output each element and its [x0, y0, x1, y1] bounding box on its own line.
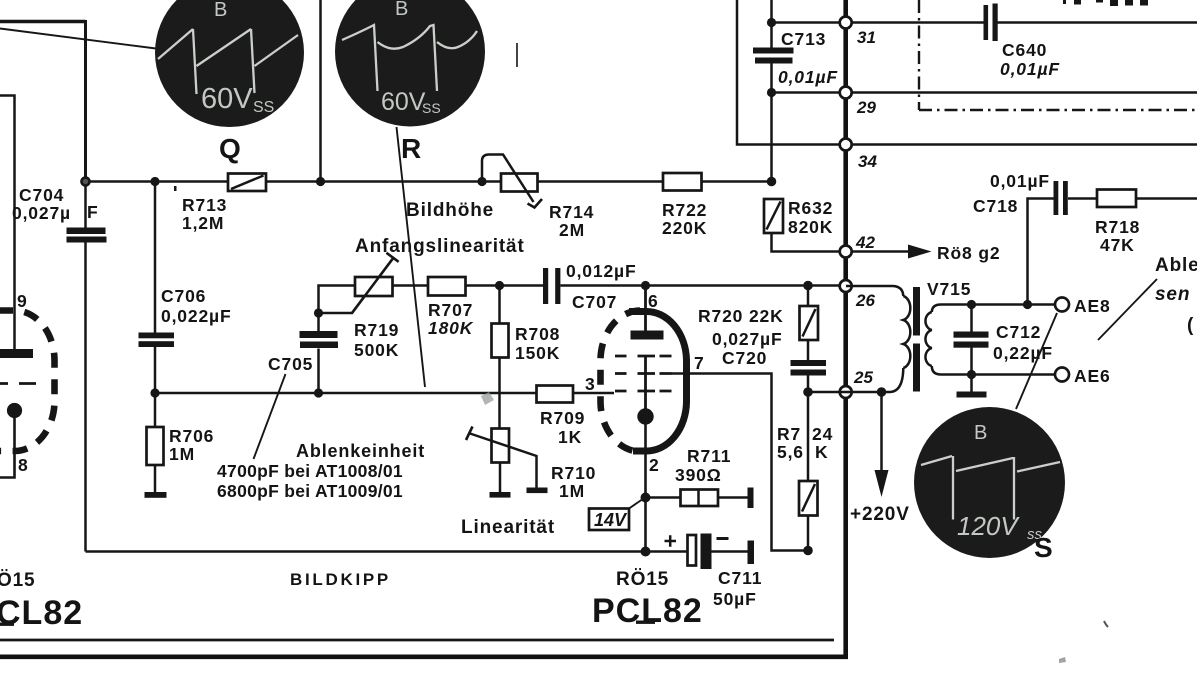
- capacitor C706: [139, 182, 232, 394]
- tube pentode RO15 PCL82: [585, 286, 705, 552]
- svg-text:1M: 1M: [169, 444, 195, 464]
- terminal AE8: [1055, 298, 1069, 312]
- triode tube left partial: [0, 291, 55, 478]
- svg-text:5,6: 5,6: [777, 442, 804, 462]
- dash-dot screen boundary: [919, 0, 1197, 110]
- svg-text:R632: R632: [788, 198, 833, 218]
- terminal 31: [840, 17, 852, 29]
- svg-text:C705: C705: [268, 354, 313, 374]
- svg-text:RÖ15: RÖ15: [616, 569, 669, 590]
- leader from circle S to AE8: [1016, 313, 1057, 409]
- grid g2 dashes: [615, 372, 672, 375]
- envelope dashed left half: [601, 311, 641, 452]
- svg-text:25: 25: [853, 368, 873, 387]
- resistor R709: [537, 386, 586, 448]
- terminal 29: [840, 87, 852, 99]
- capacitor C707: [543, 261, 637, 312]
- svg-text:B: B: [214, 0, 227, 21]
- svg-text:2M: 2M: [559, 220, 585, 240]
- svg-text:C706: C706: [161, 286, 206, 306]
- svg-text:Bildhöhe: Bildhöhe: [406, 200, 494, 221]
- note Ablenkeinheit: [217, 441, 425, 501]
- resistor R632: [764, 198, 840, 252]
- terminal AE6: [1055, 368, 1069, 382]
- svg-text:1K: 1K: [558, 427, 582, 447]
- bus main thick vertical + bottom rail: [0, 0, 846, 657]
- svg-text:SS: SS: [422, 100, 441, 116]
- svg-text:R719: R719: [354, 320, 399, 340]
- cathode dot: [7, 403, 22, 418]
- terminal 34: [840, 139, 852, 151]
- capacitor C704: [12, 182, 107, 552]
- wire bottom of box y551: [86, 550, 689, 553]
- svg-text:(: (: [1187, 315, 1194, 336]
- scope circle R: [335, 0, 485, 164]
- svg-text:Rö8 g2: Rö8 g2: [937, 243, 1000, 263]
- svg-text:Anfangslinearität: Anfangslinearität: [355, 236, 525, 257]
- svg-text:34: 34: [858, 152, 877, 171]
- grid g1 dashes: [615, 390, 672, 393]
- svg-text:R711: R711: [687, 446, 731, 466]
- svg-text:R708: R708: [515, 324, 560, 344]
- svg-text:8: 8: [18, 455, 29, 475]
- svg-text:R709: R709: [540, 408, 585, 428]
- arrow to Roe8 g2: [852, 243, 1000, 263]
- svg-text:26: 26: [855, 291, 875, 310]
- svg-text:31: 31: [857, 28, 876, 47]
- resistor R722: [662, 173, 707, 238]
- transformer V715 primary: [846, 279, 971, 392]
- svg-text:B: B: [974, 422, 987, 444]
- svg-text:PCL82: PCL82: [592, 592, 703, 630]
- svg-text:Linearität: Linearität: [461, 517, 555, 538]
- svg-text:C720: C720: [722, 348, 767, 368]
- svg-text:42: 42: [855, 233, 875, 252]
- grid g3 dashes: [615, 355, 672, 358]
- wire top-left feed pair: [0, 20, 86, 23]
- svg-text:B: B: [395, 0, 408, 20]
- wire leader to scope circle Q: [0, 29, 156, 49]
- grey smudge artifact: [481, 392, 494, 405]
- wire row y285 from R719 to terminal 26: [393, 284, 841, 287]
- cathode dot: [637, 408, 653, 424]
- svg-text:C712: C712: [996, 322, 1041, 342]
- svg-text:Q: Q: [219, 133, 241, 164]
- svg-text:120V: 120V: [957, 511, 1020, 541]
- leader from circle R down to wire: [397, 127, 426, 387]
- resistor R724: [777, 424, 833, 551]
- svg-text:sen: sen: [1155, 284, 1190, 305]
- svg-text:29: 29: [856, 98, 876, 117]
- capacitor C720: [712, 329, 826, 481]
- anode bar: [0, 349, 33, 358]
- svg-text:0,022µF: 0,022µF: [161, 306, 232, 326]
- svg-text:390Ω: 390Ω: [675, 465, 722, 485]
- svg-text:C711: C711: [718, 568, 762, 588]
- transformer V715 secondary: [925, 305, 950, 375]
- wire feedback row y393: [155, 392, 614, 395]
- svg-text:S: S: [1034, 532, 1053, 563]
- capacitor C713: [753, 0, 838, 182]
- svg-text:0,027µF: 0,027µF: [712, 329, 783, 349]
- resistor R711: [646, 446, 754, 508]
- svg-text:R707: R707: [428, 300, 473, 320]
- wire pin 9 feed from left edge: [0, 96, 15, 351]
- wire stub artifact right of circle R: [516, 43, 518, 67]
- scope circle Q: [155, 0, 304, 164]
- svg-text:150K: 150K: [515, 343, 560, 363]
- wire terminal 25 row: [808, 391, 886, 394]
- svg-text:Ö15: Ö15: [0, 570, 35, 591]
- envelope dashed: [0, 310, 55, 451]
- svg-text:C713: C713: [781, 29, 826, 49]
- svg-text:1M: 1M: [559, 481, 585, 501]
- capacitor C640: [984, 4, 1197, 80]
- svg-text:C707: C707: [572, 292, 617, 312]
- resistor R720: [698, 286, 818, 361]
- svg-text:R713: R713: [182, 195, 227, 215]
- terminal 42: [840, 246, 852, 258]
- wire terminal 31 row: [772, 21, 985, 24]
- svg-text:0,01µF: 0,01µF: [1000, 59, 1060, 79]
- svg-text:1,2M: 1,2M: [182, 213, 224, 233]
- svg-text:V715: V715: [927, 279, 971, 299]
- partial text right edge Ablenk...: [1155, 255, 1197, 336]
- terminal 25: [840, 386, 852, 398]
- svg-text:R: R: [401, 133, 421, 164]
- svg-text:K: K: [815, 442, 829, 462]
- wire AE6 row: [950, 373, 1055, 376]
- partial text fragments top right edge: [1063, 0, 1148, 6]
- resistor R718: [1095, 190, 1197, 256]
- svg-text:0,01µF: 0,01µF: [990, 171, 1050, 191]
- potentiometer R710 Linearitaet: [461, 427, 596, 539]
- wire terminal 34 row: [737, 0, 1197, 145]
- resistor R708: [492, 286, 561, 429]
- svg-text:+220V: +220V: [850, 504, 910, 525]
- svg-text:CL82: CL82: [0, 594, 83, 632]
- svg-text:R706: R706: [169, 426, 214, 446]
- svg-text:9: 9: [17, 291, 28, 311]
- wire terminal 29 row: [772, 91, 1197, 94]
- svg-text:R718: R718: [1095, 217, 1140, 237]
- svg-text:2: 2: [649, 455, 660, 475]
- terminal 26: [840, 280, 852, 292]
- svg-text:0,01µF: 0,01µF: [778, 67, 838, 87]
- box 14V: [589, 498, 645, 531]
- scope circle S: [914, 407, 1065, 563]
- svg-text:R710: R710: [551, 463, 596, 483]
- bottom rail A: [0, 639, 834, 642]
- svg-text:4700pF bei AT1008/01: 4700pF bei AT1008/01: [217, 461, 403, 481]
- svg-text:Ablenkeinheit: Ablenkeinheit: [296, 441, 425, 461]
- svg-text:AE8: AE8: [1074, 296, 1111, 316]
- envelope solid right half: [629, 311, 687, 451]
- cathode rod: [644, 356, 647, 409]
- label RO15 PCL82 left partial: [0, 570, 83, 632]
- wire vertical from top-left corner down to main node: [84, 20, 87, 182]
- svg-text:3: 3: [585, 374, 596, 394]
- wire from top edge down to node at x320: [319, 0, 322, 182]
- svg-text:14V: 14V: [594, 510, 628, 530]
- svg-text:6: 6: [648, 291, 659, 311]
- cathode lead pin 2: [644, 424, 647, 552]
- svg-text:220K: 220K: [662, 218, 707, 238]
- svg-text:C718: C718: [973, 196, 1018, 216]
- transformer core: [913, 287, 920, 336]
- capacitor C712: [954, 305, 1053, 398]
- svg-text:Able: Able: [1155, 255, 1197, 276]
- svg-text:0,027µ: 0,027µ: [12, 203, 71, 223]
- capacitor C711 electrolytic: [665, 534, 763, 610]
- svg-text:C704: C704: [19, 185, 64, 205]
- node A main-wire/C704 ring: [82, 178, 90, 186]
- resistor R713: [174, 174, 266, 234]
- capacitor C718: [973, 171, 1097, 305]
- svg-text:7: 7: [694, 353, 705, 373]
- svg-text:AE6: AE6: [1074, 366, 1111, 386]
- svg-text:500K: 500K: [354, 340, 399, 360]
- capacitor C705: [254, 313, 339, 459]
- svg-text:BILDKIPP: BILDKIPP: [290, 570, 391, 589]
- potentiometer R719: [319, 253, 400, 360]
- svg-text:R720 22K: R720 22K: [698, 306, 784, 326]
- grid dash: [0, 382, 36, 385]
- wire main grid row y181: [86, 180, 772, 183]
- svg-text:820K: 820K: [788, 217, 833, 237]
- leader from Ablenkeinheit text right: [1098, 279, 1157, 340]
- svg-text:60V: 60V: [381, 88, 426, 116]
- label RO15 PCL82 center: [592, 569, 703, 630]
- cathode lead pin 8: [0, 418, 15, 478]
- svg-text:60V: 60V: [201, 83, 253, 115]
- svg-text:R722: R722: [662, 200, 707, 220]
- svg-text:R7: R7: [777, 424, 801, 444]
- svg-text:6800pF bei AT1009/01: 6800pF bei AT1009/01: [217, 481, 403, 501]
- svg-text:50µF: 50µF: [713, 589, 757, 609]
- svg-text:0,22µF: 0,22µF: [993, 343, 1053, 363]
- svg-text:F: F: [87, 202, 99, 222]
- svg-text:0,012µF: 0,012µF: [566, 261, 637, 281]
- svg-text:SS: SS: [253, 99, 274, 116]
- potentiometer R714 Bildhoehe: [406, 155, 594, 241]
- resistor R706: [145, 393, 215, 498]
- wire pin 7 to cathode bottom: [671, 374, 808, 551]
- resistor R707: [428, 277, 474, 338]
- anode bar: [631, 331, 664, 340]
- +220V arrow: [850, 392, 910, 525]
- anode lead pin 6: [644, 286, 647, 332]
- svg-text:R714: R714: [549, 202, 594, 222]
- svg-text:47K: 47K: [1100, 235, 1135, 255]
- svg-text:180K: 180K: [428, 318, 474, 338]
- svg-text:24: 24: [812, 424, 833, 444]
- wire AE8 row: [950, 303, 1055, 306]
- svg-text:C640: C640: [1002, 40, 1047, 60]
